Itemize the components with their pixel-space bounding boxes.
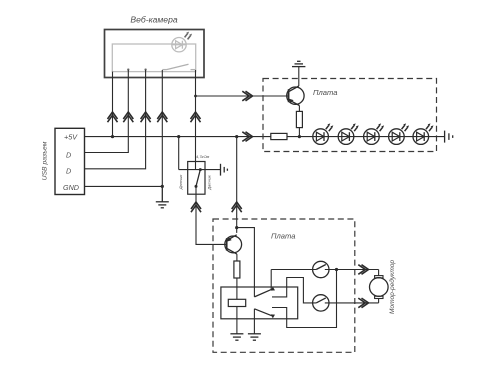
ground GND6 [248,334,261,340]
transistor Q2 [225,235,242,254]
svg-text:Плата: Плата [271,231,295,240]
flow arrow on pin3 wire [141,112,151,122]
camera inner panel [112,44,195,72]
wire Q2 emitter to resistor R3 [236,254,238,261]
camera pin contact node (wire 2 end) [127,68,129,70]
wire camera pin1 to +5V rail [112,72,114,137]
resistor R2 (series with LEDs) [271,133,287,139]
wire USB GND to camera pin4 [85,70,163,186]
wire +5V rail [85,136,271,138]
wire +5V down to board 2 (Q2 collector) [236,137,238,233]
LED HL5 [413,123,434,144]
wire motor top rail (right segment) [325,269,379,271]
svg-text:Датчик: Датчик [206,174,211,191]
svg-text:4,7кОм: 4,7кОм [196,154,210,159]
limit switch S1 [313,261,329,277]
wire +5V branch down to sensor [178,137,180,170]
flow arrow on pin1 wire [108,112,118,122]
wire collector junction to upper contact common [237,228,255,297]
side ground GND2 [221,164,228,176]
sensor contact blade [196,170,200,187]
wire R3 to relay coil [236,278,238,299]
side ground GND4 (end of LED row) [445,131,453,143]
transistor Q1 [287,86,304,106]
svg-text:Мотор-редуктор: Мотор-редуктор [388,260,396,315]
node sensor pivot bottom [195,185,198,188]
resistor R3 [234,261,240,278]
board 2 dashed outline [213,219,355,352]
ground GND5 [230,334,243,340]
svg-text:D: D [66,167,71,176]
LED HL1 [313,123,333,144]
wire motor bottom rail (right segment) [325,302,379,304]
node sensor pivot top [199,168,202,171]
wire bottom rail into motor [378,299,380,303]
svg-text:Датчик: Датчик [178,174,183,191]
wire motor top rail (left segment) [271,269,316,271]
wire sensor output down to board 2 (Q2 base) [196,186,227,244]
svg-text:+5V: +5V [64,133,78,142]
motor M1 [370,276,389,299]
wire R1 to LED row [298,128,300,137]
USB connector box [55,128,85,194]
resistor R1 [296,111,302,127]
wire USB D2 to camera pin3 [85,70,146,169]
node junction +5V / sensor branch [177,135,180,138]
flow arrow on sensor output wire [191,202,201,212]
flow arrow on pin2 wire [123,112,133,122]
flow arrow on motor top rail [358,265,368,275]
flow arrow into board 1 (base feed) [242,91,252,101]
board 1 dashed outline [263,79,437,152]
flow arrow on pin4 wire [157,112,167,122]
wire lower NC contact crossover to top rail [272,270,337,328]
wire sensor row to side ground [179,169,221,171]
wire lower contact common to ground [253,309,255,334]
relay lower contact blade [254,309,272,316]
ground GND1 [156,186,169,207]
node junction Q2 collector / relay feed [235,226,238,229]
relay K2 box [221,287,298,319]
ground GND3 (above Q1, inverted) [292,61,305,66]
node junction pin5 / base feed [194,95,197,98]
relay upper contact blade [254,289,272,297]
wire LED row [287,136,445,138]
wire coil to ground [236,307,238,334]
wire camera pin5 (switch output) down [195,70,197,170]
camera switch SA0 [162,64,195,69]
LED HL4 [389,123,410,144]
sensor box K1 (reed switch) [188,162,205,195]
svg-text:USB разъем: USB разъем [42,141,49,180]
node junction R1 / LED row [298,135,301,138]
relay coil [228,299,245,306]
svg-text:Плата: Плата [313,88,337,97]
camera pin contact node (wire 3 end) [144,68,146,70]
lower blade tip mark [271,314,275,318]
wire USB D1 to camera pin2 [85,70,129,153]
flow arrow on board 2 feed wire [232,202,242,212]
limit switch S2 [313,295,329,311]
wire upper fixed contact to motor top rail [270,270,272,290]
svg-text:D: D [66,151,71,160]
flow arrow on pin5 wire [191,112,201,122]
node junction GND / ground stem [161,185,164,188]
wire base feed to board 1 [196,95,289,97]
svg-text:Веб-камера: Веб-камера [130,14,177,24]
node junction +5V / camera pin1 [111,135,114,138]
flow arrow into board 1 (+5V rail) [242,132,252,142]
upper blade tip mark [271,287,275,291]
web camera box [105,30,205,78]
wire Q1 collector to ground [298,67,300,86]
node junction top rail / crossover [335,268,338,271]
wire Q1 emitter to resistor R1 [298,106,300,112]
wire top rail into motor [378,270,380,276]
node junction +5V / board 2 feed [235,135,238,138]
svg-text:GND: GND [63,183,79,192]
LED HL3 [364,123,385,144]
wire upper NC contact path to lower rail [272,278,316,303]
camera LED HL0 [172,32,192,52]
LED HL2 [338,123,359,144]
flow arrow on motor bottom rail [358,298,368,308]
